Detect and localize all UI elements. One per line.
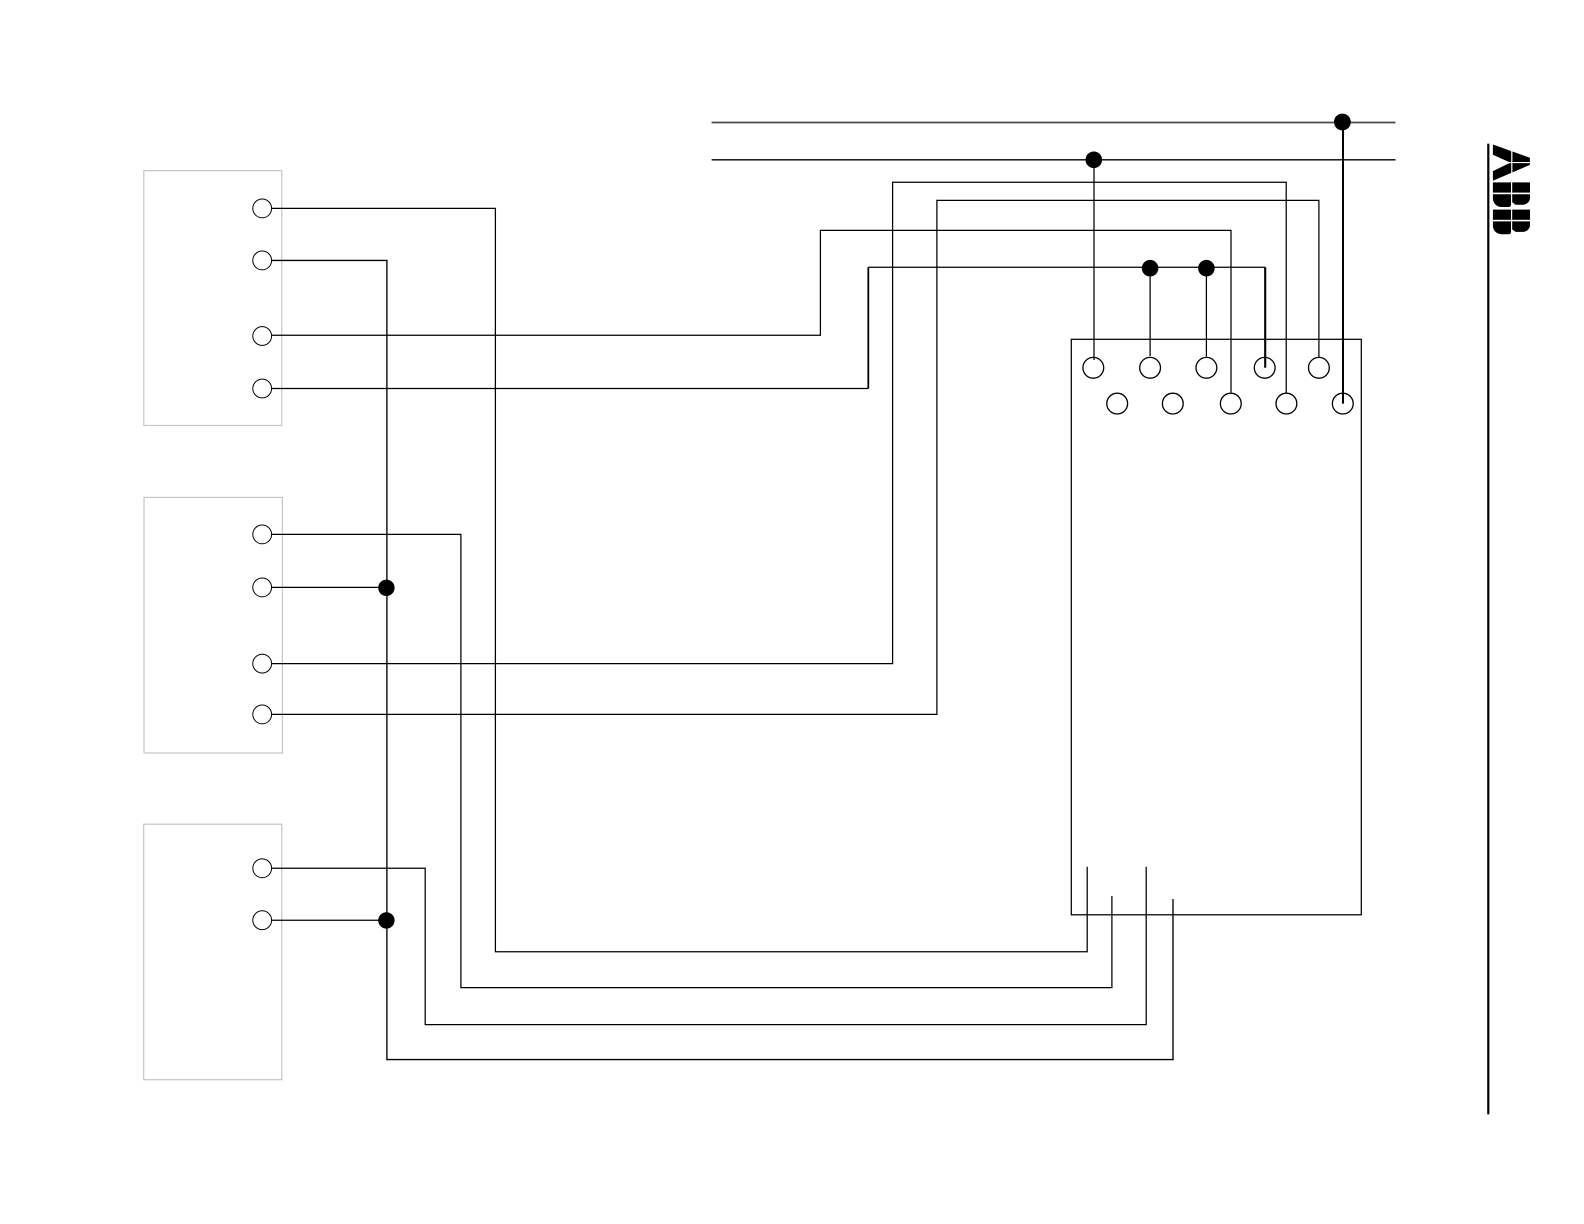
terminal K3:1: [253, 859, 272, 878]
title block rule: [1487, 144, 1489, 1115]
wire K1:3 to X1:8: [272, 230, 1231, 392]
wire K2:1 routed below to stub b: [272, 534, 1112, 987]
junction on K1:4 wire at X1:3 drop: [1198, 260, 1215, 277]
ABB logo letter B2 (rotated): [1493, 210, 1530, 235]
terminal X1:2 top row: [1140, 357, 1161, 378]
terminal K1:1: [253, 199, 272, 218]
wire L2 to terminal X1:1: [1093, 160, 1095, 360]
wire K1:4 to X1:4 (horizontal run): [272, 388, 869, 390]
wire K2:3 to X1:9: [272, 182, 1287, 663]
wire drop into X1:3: [1205, 267, 1207, 356]
junction on L2: [1086, 152, 1103, 169]
wire K3:1 routed below to stub c: [272, 867, 1147, 1025]
terminal K1:3: [253, 327, 272, 346]
device box K2: [144, 497, 282, 753]
ABB logo letter B1 (rotated): [1493, 182, 1530, 207]
junction at K2:2 tie-in: [378, 580, 394, 596]
device box K3: [144, 824, 282, 1079]
wire drop into X1:2: [1149, 267, 1151, 356]
terminal K1:4: [253, 379, 272, 398]
terminal X1:5 top row: [1309, 357, 1330, 378]
wire K1:2 / K2:2 / K3:2 common to stub d: [272, 260, 1173, 1059]
terminal X1:4 top row: [1254, 357, 1275, 378]
terminal K2:3: [253, 654, 272, 673]
wire L1 to terminal X1:10: [1342, 122, 1344, 404]
wire K1:1 routed below to stub a: [272, 208, 1088, 951]
wire K2:4 to X1:5: [272, 200, 1319, 714]
terminal X1:1 top row: [1083, 357, 1104, 378]
terminal X1:3 top row: [1196, 357, 1217, 378]
ABB logo letter A hairlines: [1493, 144, 1530, 181]
terminal X1:6 bottom row: [1107, 393, 1128, 414]
terminal K1:2: [253, 251, 272, 270]
junction on L1: [1334, 114, 1351, 131]
terminal X1:9 bottom row: [1276, 393, 1297, 414]
junction on K1:4 wire at X1:2 drop: [1142, 260, 1159, 277]
terminal K2:4: [253, 705, 272, 724]
ABB logo letter A (rotated): [1493, 145, 1530, 181]
terminal K2:1: [253, 525, 272, 544]
junction at K3:2 tie-in: [378, 912, 394, 928]
terminal block X1 (main unit box): [1071, 339, 1361, 915]
device box K1: [144, 171, 282, 426]
bus line L2: [712, 159, 1396, 161]
terminal K2:2: [253, 578, 272, 597]
terminal K3:2: [253, 911, 272, 930]
bus line L1: [712, 122, 1396, 124]
terminal X1:10 bottom row: [1332, 393, 1353, 414]
terminal X1:7 bottom row: [1162, 393, 1183, 414]
wire K2:2 to common node: [272, 586, 387, 588]
terminal X1:8 bottom row: [1220, 393, 1241, 414]
wire K3:2 to common node: [272, 919, 387, 921]
wire drop into X1:4: [1264, 267, 1266, 368]
